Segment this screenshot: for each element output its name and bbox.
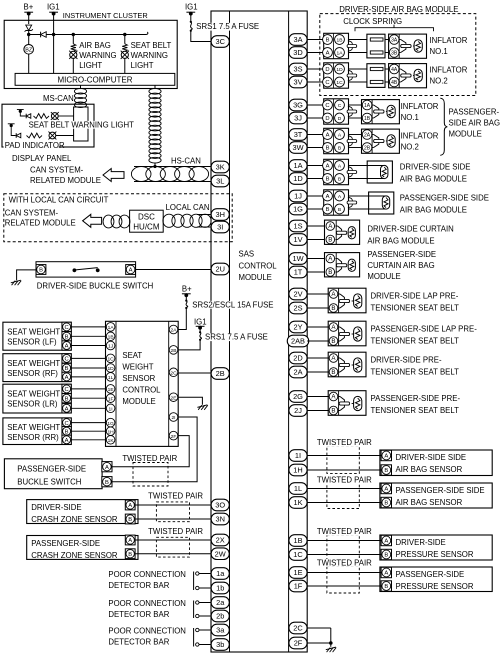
diode seat belt warning light row bbox=[26, 114, 31, 119]
HS-CAN high wire to 3K bbox=[134, 163, 211, 169]
svg-text:1a: 1a bbox=[216, 569, 225, 578]
wire pin 2C to oval 2B bbox=[178, 372, 211, 374]
SAS module right connector pins (ovals) bbox=[287, 34, 309, 649]
svg-text:1D: 1D bbox=[293, 174, 302, 183]
svg-text:C: C bbox=[65, 387, 69, 393]
micro-computer box bbox=[15, 73, 175, 85]
wire to sensor 2 pin B bbox=[307, 502, 382, 504]
wire 1D to driver side module bbox=[307, 178, 324, 180]
pin B passenger buckle bbox=[102, 477, 112, 487]
clock spring connector B/1B/A/1A bbox=[323, 33, 349, 58]
svg-text:A: A bbox=[384, 571, 388, 577]
svg-text:PAD INDICATOR: PAD INDICATOR bbox=[5, 141, 65, 150]
svg-text:PASSENGER-SIDE: PASSENGER-SIDE bbox=[367, 250, 436, 259]
seat weight sensor (RR) box bbox=[3, 418, 71, 445]
svg-text:TWISTED PAIR: TWISTED PAIR bbox=[317, 559, 372, 568]
lamp seat belt warning light (display panel) bbox=[51, 112, 59, 120]
svg-text:B: B bbox=[338, 207, 341, 213]
svg-text:BZ: BZ bbox=[25, 47, 33, 53]
svg-text:1B: 1B bbox=[337, 38, 343, 44]
svg-text:1A: 1A bbox=[108, 325, 115, 331]
svg-text:INFLATOR: INFLATOR bbox=[401, 102, 439, 111]
svg-text:C: C bbox=[338, 103, 342, 109]
wire fuse SRS1 to pin 2B bbox=[178, 340, 200, 350]
svg-text:3A: 3A bbox=[293, 35, 302, 44]
pretensioner label (DRIVER-SIDE LAP PRE-) bbox=[371, 292, 460, 313]
wire 3G to passenger module bbox=[307, 104, 324, 106]
pretensioner label (PASSENGER-SIDE PRE-) bbox=[371, 394, 461, 415]
svg-text:A: A bbox=[128, 503, 132, 509]
driver-side buckle switch box bbox=[36, 262, 136, 277]
wire 3A to clock spring bbox=[307, 39, 324, 41]
driver-side air bag module label bbox=[339, 5, 458, 14]
svg-text:TWISTED PAIR: TWISTED PAIR bbox=[317, 476, 372, 485]
svg-text:INFLATOR: INFLATOR bbox=[430, 36, 468, 45]
driver side airbag connector A/A/B/B bbox=[323, 159, 349, 184]
svg-text:1A: 1A bbox=[337, 51, 344, 57]
svg-text:IG1: IG1 bbox=[194, 317, 207, 326]
svg-text:1A: 1A bbox=[364, 103, 371, 109]
svg-text:B: B bbox=[326, 146, 330, 152]
resistor pad indicator row bbox=[27, 133, 43, 138]
ground SAS module bbox=[326, 647, 336, 652]
driver-side curtain label bbox=[367, 224, 453, 245]
air bag warning light label bbox=[79, 41, 116, 70]
wire 2S to pretensioner bbox=[307, 307, 329, 309]
svg-text:3J: 3J bbox=[294, 114, 302, 123]
svg-text:MS-CAN: MS-CAN bbox=[43, 94, 74, 103]
wire 1S to driver curtain bbox=[307, 225, 324, 227]
svg-text:WEIGHT: WEIGHT bbox=[122, 363, 153, 372]
svg-text:SRS1 7.5 A FUSE: SRS1 7.5 A FUSE bbox=[205, 333, 268, 342]
wire clip to passenger side squib bbox=[348, 196, 386, 209]
svg-text:1H: 1H bbox=[107, 429, 114, 435]
svg-text:SIDE AIR BAG: SIDE AIR BAG bbox=[449, 119, 500, 128]
wire 3V to clock spring bbox=[307, 81, 324, 83]
ignition feed IG1 (SAS) bbox=[194, 317, 207, 329]
svg-text:A: A bbox=[65, 407, 69, 413]
instrument cluster label bbox=[63, 11, 148, 20]
svg-text:2C: 2C bbox=[170, 371, 177, 377]
svg-text:B: B bbox=[128, 517, 132, 523]
svg-text:2U: 2U bbox=[215, 265, 224, 274]
CAN system-related module label (HS-CAN) bbox=[30, 166, 101, 186]
svg-text:B: B bbox=[326, 177, 330, 183]
wire 1W to passenger curtain bbox=[307, 258, 324, 260]
wire 3D to clock spring bbox=[307, 52, 324, 54]
passenger-side side air bag module label bbox=[400, 193, 489, 214]
buckle switch contacts bbox=[73, 268, 100, 273]
svg-text:C: C bbox=[325, 103, 329, 109]
svg-text:1b: 1b bbox=[216, 584, 224, 593]
svg-text:1K: 1K bbox=[293, 498, 302, 507]
driver-side side air bag squib bbox=[367, 161, 392, 183]
svg-text:2A: 2A bbox=[293, 368, 302, 377]
inflator no.2 (driver) unit bbox=[389, 64, 427, 88]
svg-text:1I: 1I bbox=[295, 451, 301, 460]
svg-text:1B: 1B bbox=[293, 536, 302, 545]
seat weight sensor control module label bbox=[122, 351, 161, 406]
svg-text:CLOCK SPRING: CLOCK SPRING bbox=[343, 17, 402, 26]
svg-text:CAN SYSTEM-: CAN SYSTEM- bbox=[5, 208, 59, 217]
svg-text:B: B bbox=[331, 338, 335, 345]
svg-text:SEAT: SEAT bbox=[122, 351, 142, 360]
seat weight sensor (LR) box bbox=[3, 384, 71, 413]
svg-text:B: B bbox=[384, 468, 388, 474]
svg-text:1J: 1J bbox=[108, 344, 114, 350]
wire clip to driver side squib bbox=[348, 166, 384, 179]
poor connection detector bar 2 bbox=[194, 601, 212, 619]
svg-text:D: D bbox=[325, 116, 329, 122]
svg-text:A: A bbox=[326, 164, 330, 170]
svg-text:B: B bbox=[65, 429, 69, 435]
svg-text:CONTROL: CONTROL bbox=[122, 386, 161, 395]
twisted pair dashed box (crash 1) bbox=[156, 502, 189, 522]
svg-text:1F: 1F bbox=[294, 582, 303, 591]
ground seat weight module bbox=[197, 405, 207, 410]
instrument cluster box bbox=[4, 20, 177, 88]
svg-text:A: A bbox=[129, 268, 133, 274]
svg-text:1C: 1C bbox=[293, 550, 303, 559]
wire to sensor 4 pin A bbox=[307, 572, 382, 574]
wire pin 2I to passenger buckle B bbox=[112, 417, 197, 482]
wire buckle A to 2U bbox=[136, 269, 211, 271]
svg-text:HU/CM: HU/CM bbox=[133, 222, 160, 231]
svg-text:3D: 3D bbox=[293, 48, 302, 57]
svg-text:D: D bbox=[325, 67, 329, 73]
svg-text:B: B bbox=[39, 268, 43, 274]
svg-text:DRIVER-SIDE SIDE: DRIVER-SIDE SIDE bbox=[400, 162, 471, 171]
ground driver buckle switch bbox=[11, 280, 21, 285]
inflator no.2 (driver) label bbox=[430, 66, 468, 86]
svg-text:1G: 1G bbox=[107, 421, 114, 427]
wire to sensor 3 pin B bbox=[307, 554, 382, 556]
svg-text:TWISTED PAIR: TWISTED PAIR bbox=[317, 527, 372, 536]
driver-side curtain air bag module bbox=[325, 220, 360, 244]
clock spring inner connector 2 bbox=[367, 64, 385, 88]
wire to sensor 4 pin B bbox=[307, 585, 382, 587]
LOCAL CAN label bbox=[166, 203, 210, 212]
svg-text:B+: B+ bbox=[24, 2, 34, 11]
svg-text:AIR BAG MODULE: AIR BAG MODULE bbox=[400, 174, 467, 183]
poor connection detector bar 1 label bbox=[108, 570, 186, 590]
svg-text:2A: 2A bbox=[171, 328, 178, 334]
svg-text:PASSENGER-SIDE: PASSENGER-SIDE bbox=[17, 465, 86, 474]
wire clip to squib conn 3 bbox=[348, 105, 362, 118]
seat belt warning light label bbox=[131, 41, 172, 70]
diode pad indicator row bbox=[16, 133, 21, 138]
shorting clip 2 bbox=[347, 70, 357, 81]
svg-text:1E: 1E bbox=[108, 387, 115, 393]
svg-text:INSTRUMENT CLUSTER: INSTRUMENT CLUSTER bbox=[63, 11, 148, 20]
svg-text:DETECTOR BAR: DETECTOR BAR bbox=[108, 581, 169, 590]
svg-text:2B: 2B bbox=[171, 348, 177, 354]
pin A driver buckle switch bbox=[126, 265, 136, 275]
passenger-side side air bag squib bbox=[369, 192, 394, 214]
wire local CAN to 3H bbox=[197, 214, 211, 216]
svg-text:TENSIONER SEAT BELT: TENSIONER SEAT BELT bbox=[371, 406, 460, 415]
wires seat weight sensor (RR) to module bbox=[71, 423, 106, 440]
svg-text:1J: 1J bbox=[294, 192, 302, 201]
svg-text:TENSIONER SEAT BELT: TENSIONER SEAT BELT bbox=[371, 368, 460, 377]
display panel label bbox=[12, 154, 72, 163]
svg-text:3S: 3S bbox=[293, 65, 302, 74]
svg-text:1V: 1V bbox=[293, 235, 302, 244]
pretensioner seat belt (DRIVER-SIDE LAP PRE-) bbox=[328, 288, 366, 313]
twisted pair dashed box (buckle) bbox=[133, 463, 168, 487]
svg-text:AIR BAG SENSOR: AIR BAG SENSOR bbox=[396, 498, 463, 507]
seat weight module right pins bbox=[169, 325, 178, 440]
svg-text:LOCAL CAN: LOCAL CAN bbox=[166, 203, 210, 212]
wire local CAN to 3I bbox=[197, 226, 211, 228]
svg-text:3B: 3B bbox=[391, 51, 398, 57]
svg-text:DRIVER-SIDE BUCKLE SWITCH: DRIVER-SIDE BUCKLE SWITCH bbox=[37, 281, 154, 290]
pad indicator label bbox=[4, 141, 65, 150]
svg-text:INFLATOR: INFLATOR bbox=[401, 132, 439, 141]
svg-text:DETECTOR BAR: DETECTOR BAR bbox=[108, 638, 169, 647]
svg-text:MODULE: MODULE bbox=[122, 397, 155, 406]
poor connection detector bar 3 bbox=[194, 628, 212, 647]
wire micro-computer to HS-CAN bbox=[154, 85, 156, 89]
svg-text:B: B bbox=[128, 552, 132, 558]
svg-text:1F: 1F bbox=[108, 396, 114, 402]
passenger-side curtain label bbox=[367, 250, 436, 281]
svg-text:SEAT BELT: SEAT BELT bbox=[131, 41, 172, 50]
svg-text:2a: 2a bbox=[216, 598, 225, 607]
wire IG1 to micro-computer bbox=[53, 14, 55, 74]
SAS module left connector pins (ovals) bbox=[211, 36, 229, 651]
svg-text:1S: 1S bbox=[293, 222, 302, 231]
inflator no.1 (passenger) label bbox=[401, 102, 439, 122]
poor connection detector bar 3 label bbox=[108, 626, 186, 646]
pretensioner label (PASSENGER-SIDE LAP PRE-) bbox=[371, 325, 478, 346]
shorting clip 6 bbox=[347, 197, 357, 208]
svg-text:WITH LOCAL CAN CIRCUIT: WITH LOCAL CAN CIRCUIT bbox=[9, 196, 109, 205]
svg-text:DRIVER-SIDE CURTAIN: DRIVER-SIDE CURTAIN bbox=[367, 224, 453, 233]
inflator no.1 (driver) unit bbox=[389, 34, 427, 58]
wire 2A to pretensioner bbox=[307, 371, 329, 373]
svg-text:DRIVER-SIDE: DRIVER-SIDE bbox=[396, 538, 446, 547]
svg-text:WARNING: WARNING bbox=[79, 51, 116, 60]
wire 1A to driver side module bbox=[307, 165, 324, 167]
seat weight module left pins bbox=[106, 323, 115, 445]
svg-text:2J: 2J bbox=[294, 406, 302, 415]
wire 1G to passenger side module bbox=[307, 208, 324, 210]
wire crash zone B to 3N bbox=[135, 518, 211, 520]
svg-text:B: B bbox=[384, 553, 388, 559]
svg-text:2E: 2E bbox=[171, 395, 178, 401]
svg-text:SRS2/ESCL 15A FUSE: SRS2/ESCL 15A FUSE bbox=[192, 300, 273, 309]
pin B passenger crash zone bbox=[125, 549, 135, 559]
svg-text:PASSENGER-SIDE SIDE: PASSENGER-SIDE SIDE bbox=[396, 486, 485, 495]
passenger-side curtain air bag module bbox=[325, 253, 360, 277]
sensor box (PASSENGER-SIDE SIDE) bbox=[380, 483, 492, 508]
svg-text:B: B bbox=[105, 480, 109, 486]
clock spring inner connector 1 bbox=[367, 34, 385, 58]
twisted pair label (crash 1) bbox=[148, 491, 203, 500]
svg-text:CONTROL: CONTROL bbox=[239, 261, 278, 270]
svg-text:1B: 1B bbox=[108, 335, 114, 341]
svg-text:A: A bbox=[65, 344, 69, 350]
svg-text:3V: 3V bbox=[293, 78, 302, 87]
svg-text:NO.2: NO.2 bbox=[401, 143, 419, 152]
svg-text:TWISTED PAIR: TWISTED PAIR bbox=[317, 438, 372, 447]
wire 1J to passenger side module bbox=[307, 195, 324, 197]
wire 3J to passenger module bbox=[307, 117, 324, 119]
driver crash zone label bbox=[31, 503, 118, 524]
pin A driver crash zone bbox=[125, 500, 135, 510]
wire to display connector row1 bbox=[58, 115, 73, 117]
with local CAN circuit label bbox=[7, 196, 108, 205]
svg-text:C: C bbox=[65, 325, 69, 331]
air bag warning light lamp bbox=[69, 51, 77, 59]
fuse SRS2 label bbox=[191, 300, 273, 309]
HS-CAN low wire to 3L bbox=[134, 181, 211, 183]
svg-text:SEAT WEIGHT: SEAT WEIGHT bbox=[7, 390, 60, 399]
svg-text:B: B bbox=[65, 396, 69, 402]
svg-text:B: B bbox=[331, 305, 335, 312]
wires seat weight sensor (LR) to module bbox=[71, 389, 106, 408]
svg-text:B: B bbox=[338, 146, 341, 152]
passenger module connector A/A/B/B bbox=[323, 128, 349, 153]
display panel connector bbox=[74, 107, 88, 141]
wire 2F to ground bbox=[307, 628, 332, 647]
fuse SRS2/ESCL 15A bbox=[185, 295, 188, 309]
wire buckle B to ground bbox=[17, 270, 36, 281]
HS-CAN twisted pair loops bbox=[131, 167, 208, 182]
wire 2J to pretensioner bbox=[307, 410, 329, 412]
wire 3T to passenger module bbox=[307, 134, 324, 136]
svg-text:HS-CAN: HS-CAN bbox=[171, 157, 201, 166]
wire 2Y to pretensioner bbox=[307, 326, 329, 328]
wire 2AB to pretensioner bbox=[307, 340, 329, 342]
svg-text:1T: 1T bbox=[294, 268, 303, 277]
inflator no.2 (passenger) label bbox=[401, 132, 439, 152]
twisted pair label (sensor 1) bbox=[316, 438, 372, 447]
svg-text:D: D bbox=[338, 116, 342, 122]
twisted pair dashed box (sensor 3) bbox=[327, 535, 359, 561]
svg-text:1G: 1G bbox=[293, 205, 303, 214]
passenger-side crash zone sensor box bbox=[27, 536, 138, 560]
svg-text:A: A bbox=[384, 539, 388, 545]
svg-text:1D: 1D bbox=[336, 67, 343, 73]
svg-text:2V: 2V bbox=[293, 290, 302, 299]
svg-text:B: B bbox=[331, 408, 335, 415]
wire micro-computer to MS-CAN bbox=[80, 85, 82, 89]
svg-text:B: B bbox=[384, 501, 388, 507]
seat belt warning light lamp bbox=[121, 51, 129, 59]
svg-text:CAN SYSTEM-: CAN SYSTEM- bbox=[30, 166, 84, 175]
wire 2V to pretensioner bbox=[307, 293, 329, 295]
DSC HU/CM label bbox=[133, 212, 160, 231]
svg-text:B+: B+ bbox=[182, 285, 192, 294]
svg-text:TWISTED PAIR: TWISTED PAIR bbox=[122, 454, 177, 463]
svg-text:DISPLAY PANEL: DISPLAY PANEL bbox=[12, 154, 72, 163]
SAS control module outline bbox=[211, 11, 307, 652]
driver-side air bag module dashed box bbox=[320, 14, 476, 96]
twisted pair dashed box (sensor 1) bbox=[327, 446, 359, 473]
svg-text:DRIVER-SIDE PRE-: DRIVER-SIDE PRE- bbox=[371, 356, 442, 365]
sensor box (PASSENGER-SIDE) bbox=[380, 567, 492, 592]
svg-text:3K: 3K bbox=[216, 163, 225, 172]
wire to sensor 3 pin A bbox=[307, 540, 382, 542]
svg-text:DRIVER-SIDE: DRIVER-SIDE bbox=[31, 503, 81, 512]
svg-text:B: B bbox=[328, 269, 332, 276]
svg-text:3G: 3G bbox=[293, 101, 303, 110]
shorting clip 4 bbox=[347, 136, 357, 147]
node cluster top rail bbox=[27, 33, 146, 36]
svg-text:AIR BAG SENSOR: AIR BAG SENSOR bbox=[396, 465, 463, 474]
svg-text:NO.1: NO.1 bbox=[430, 47, 448, 56]
MS-CAN twisted wire coil bbox=[74, 88, 86, 107]
battery feed B+ (SAS) bbox=[182, 285, 192, 298]
svg-text:TWISTED PAIR: TWISTED PAIR bbox=[148, 527, 203, 536]
svg-text:1C: 1C bbox=[336, 80, 343, 86]
svg-text:1L: 1L bbox=[108, 375, 114, 381]
svg-text:B: B bbox=[384, 584, 388, 590]
wire fuse to 3C bbox=[191, 31, 211, 41]
svg-text:A: A bbox=[105, 465, 109, 471]
arrow to CAN system-related module bbox=[103, 169, 124, 182]
shorting clip 1 bbox=[347, 41, 357, 52]
svg-text:3C: 3C bbox=[215, 37, 225, 46]
battery feed B+ (instrument cluster) bbox=[24, 2, 34, 15]
svg-text:1I: 1I bbox=[109, 407, 113, 413]
svg-text:A: A bbox=[128, 538, 132, 544]
svg-text:WARNING: WARNING bbox=[131, 51, 168, 60]
driver-side buckle switch label bbox=[37, 281, 154, 290]
svg-text:LIGHT: LIGHT bbox=[79, 61, 102, 70]
wire to sensor 1 pin B bbox=[307, 469, 382, 471]
svg-text:2S: 2S bbox=[293, 304, 302, 313]
svg-text:3T: 3T bbox=[294, 130, 303, 139]
svg-text:B: B bbox=[328, 237, 332, 244]
wire to display connector row2 bbox=[56, 135, 74, 137]
passenger-side buckle switch box bbox=[4, 459, 102, 489]
driver-side side air bag module label bbox=[400, 162, 471, 183]
svg-text:3H: 3H bbox=[215, 210, 224, 219]
passenger module connector C/C/D/D bbox=[323, 99, 349, 124]
shorting clip 5 bbox=[347, 167, 357, 178]
HS-CAN twisted wire coil vertical bbox=[149, 88, 161, 163]
svg-text:MODULE: MODULE bbox=[239, 273, 272, 282]
svg-text:SRS1 7.5 A FUSE: SRS1 7.5 A FUSE bbox=[196, 22, 259, 31]
svg-text:DSC: DSC bbox=[138, 212, 155, 221]
CAN system-related module label (local CAN) bbox=[5, 208, 76, 227]
svg-text:3L: 3L bbox=[216, 177, 224, 186]
svg-text:3b: 3b bbox=[216, 640, 224, 649]
wire B+ into cluster bbox=[28, 14, 30, 24]
svg-text:1C: 1C bbox=[107, 357, 114, 363]
svg-text:C: C bbox=[65, 357, 69, 363]
wire to sensor 1 pin A bbox=[307, 455, 382, 457]
svg-text:TENSIONER SEAT BELT: TENSIONER SEAT BELT bbox=[371, 304, 460, 313]
svg-text:3I: 3I bbox=[217, 223, 223, 232]
sensor box (DRIVER-SIDE SIDE) bbox=[380, 450, 492, 476]
svg-text:A: A bbox=[65, 375, 69, 381]
wire to sensor 2 pin A bbox=[307, 488, 382, 490]
wire crash zone A to 2X bbox=[135, 539, 211, 541]
HS-CAN label bbox=[171, 157, 201, 166]
wire seat belt lamp wiring bbox=[124, 35, 126, 74]
wires seat weight sensor (RF) to module bbox=[71, 358, 106, 377]
svg-text:SEAT WEIGHT: SEAT WEIGHT bbox=[7, 423, 60, 432]
svg-text:A: A bbox=[326, 194, 330, 200]
svg-text:DRIVER-SIDE SIDE: DRIVER-SIDE SIDE bbox=[396, 453, 467, 462]
svg-text:B: B bbox=[65, 335, 69, 341]
svg-text:NO.1: NO.1 bbox=[401, 113, 419, 122]
twisted pair label (buckle) bbox=[122, 454, 177, 463]
